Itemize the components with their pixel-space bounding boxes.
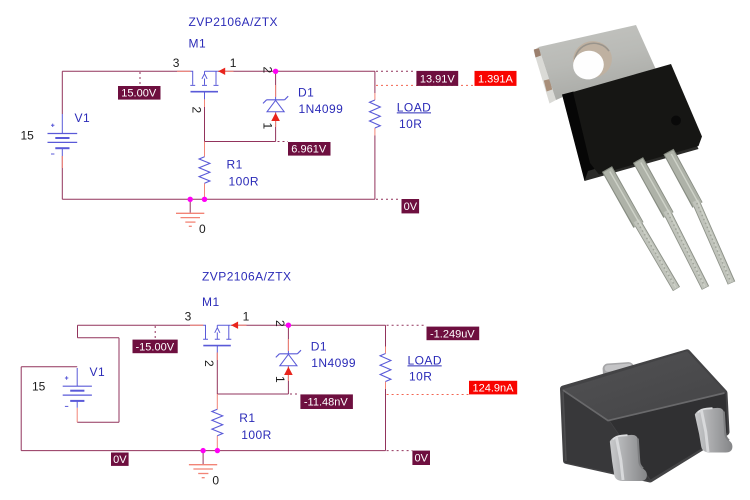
probe dotted to 0V: [376, 198, 401, 200]
svg-text:15.00V: 15.00V: [121, 88, 157, 100]
ground symbol: [176, 199, 204, 226]
wire battery bottom to rail: [61, 156, 63, 199]
battery V1 (reversed wiring): [63, 368, 92, 408]
wire M1 source stem: [204, 99, 206, 141]
svg-text:15: 15: [21, 129, 35, 143]
probe dotted to 124.9nA: [387, 394, 469, 396]
svg-text:M1: M1: [202, 295, 220, 309]
M1 drain current arrow: [218, 68, 225, 75]
svg-text:0V: 0V: [404, 201, 418, 213]
wire top rail left (battery to M1 gate): [62, 70, 190, 72]
wire hook left vertical: [77, 325, 79, 338]
zener diode D1: [263, 96, 288, 112]
node dot ground: [188, 197, 193, 202]
leg 3: [669, 152, 732, 284]
mosfet M1: [203, 325, 231, 352]
svg-text:0: 0: [199, 222, 206, 236]
svg-text:V1: V1: [75, 111, 91, 125]
smd back lead tab: [602, 362, 635, 381]
probe dotted to -15.00V: [154, 326, 156, 340]
svg-text:0V: 0V: [415, 453, 429, 465]
ground symbol: [189, 451, 217, 478]
svg-text:1N4099: 1N4099: [311, 356, 356, 370]
svg-text:100R: 100R: [241, 428, 271, 442]
wire D1 anode lead: [275, 113, 277, 142]
smd front leg right: [695, 408, 733, 453]
node dot R1 bottom: [202, 197, 207, 202]
wire top rail (hook to M1 gate): [78, 324, 204, 326]
svg-text:0: 0: [212, 474, 219, 488]
svg-text:2: 2: [273, 320, 287, 327]
svg-text:-1.249uV: -1.249uV: [430, 328, 475, 340]
wire R1 leads: [204, 142, 206, 200]
smd body silhouette: [564, 353, 727, 479]
smd top edge highlight: [563, 390, 725, 420]
wire hook bottom to battery: [77, 421, 119, 423]
svg-text:1: 1: [243, 310, 250, 324]
body bottom bevel: [585, 139, 699, 181]
wire D1 cathode lead: [275, 71, 277, 97]
probe dotted to 13.91V: [376, 70, 416, 72]
svg-text:1N4099: 1N4099: [299, 102, 344, 116]
smd body right face: [610, 393, 728, 480]
value box -15.00V: [133, 340, 178, 354]
resistor R1: [212, 409, 223, 435]
photo TO-220 package: [534, 25, 732, 289]
svg-text:D1: D1: [298, 86, 314, 100]
svg-text:2: 2: [202, 360, 216, 367]
node dot ground: [200, 448, 205, 453]
D1 current arrow: [284, 367, 293, 375]
wire top rail mid (M1 to D1 node): [231, 324, 288, 326]
node dot R1 bottom: [215, 448, 220, 453]
value box 13.91V: [416, 71, 458, 86]
svg-text:100R: 100R: [229, 174, 260, 188]
smd body top face: [562, 351, 727, 421]
probe dotted to 6.961V: [278, 141, 289, 143]
smd front leg left: [610, 435, 647, 481]
svg-text:1: 1: [260, 123, 274, 130]
photo SMD package: [562, 351, 733, 481]
svg-text:1: 1: [273, 376, 287, 383]
svg-text:ZVP2106A/ZTX: ZVP2106A/ZTX: [189, 15, 278, 29]
value box 6.961V: [288, 142, 331, 156]
svg-text:R1: R1: [227, 158, 243, 172]
leg 1: [607, 169, 677, 289]
svg-text:2: 2: [189, 107, 203, 114]
value box 0V: [402, 199, 420, 213]
wire left outer rail: [20, 367, 22, 451]
resistor LOAD: [370, 100, 381, 128]
svg-text:V1: V1: [90, 365, 106, 379]
svg-text:13.91V: 13.91V: [420, 73, 456, 85]
svg-text:ZVP2106A/ZTX: ZVP2106A/ZTX: [202, 270, 291, 284]
body mold dot: [671, 116, 681, 126]
svg-text:1.391A: 1.391A: [478, 73, 514, 85]
wire top rail right (D1 node to load): [276, 70, 375, 72]
probe dotted to 15.00V: [139, 72, 141, 86]
svg-text:6.961V: 6.961V: [291, 144, 327, 156]
value box -11.48nV: [300, 394, 353, 409]
svg-text:R1: R1: [239, 411, 255, 425]
node dot D1 top: [286, 323, 291, 328]
wire D1 cathode lead: [287, 325, 289, 351]
probe dotted to -1.249uV: [387, 324, 426, 326]
wire hook right vertical: [118, 338, 120, 422]
wire node to D1 anode: [217, 393, 288, 395]
wire hook horizontal: [78, 337, 120, 339]
svg-text:-11.48nV: -11.48nV: [304, 397, 348, 409]
svg-text:3: 3: [185, 310, 192, 324]
probe dotted to 1.391A: [376, 84, 474, 86]
wire bottom rail: [62, 198, 375, 200]
value box -1.249uV: [427, 327, 480, 341]
smd body front face: [563, 391, 651, 481]
probe dotted to 0V right: [387, 450, 413, 452]
wire battery top to left rail: [21, 366, 77, 368]
svg-text:2: 2: [260, 67, 274, 74]
M1 drain current arrow: [231, 322, 238, 329]
body front face: [573, 64, 702, 175]
value box 0V left: [111, 453, 129, 467]
metal tab side face: [534, 47, 557, 104]
svg-text:-15.00V: -15.00V: [136, 341, 175, 353]
probe dotted to -11.48nV: [290, 393, 300, 395]
value box 15.00V: [118, 86, 161, 100]
svg-text:0V: 0V: [113, 454, 127, 466]
label LOAD underlined: [397, 101, 431, 115]
wire D1 anode lead: [287, 367, 289, 395]
svg-text:15: 15: [32, 380, 46, 394]
wire bottom rail: [21, 450, 385, 452]
wire R1 leads: [216, 394, 218, 451]
tab hole: [568, 37, 615, 82]
value box 124.9nA: [469, 381, 517, 395]
wire node to D1 anode: [205, 141, 276, 143]
wire left rail (battery top lead): [61, 71, 63, 114]
body left side face: [562, 92, 597, 182]
value box 0V right: [412, 451, 430, 465]
tab notch marks: [534, 48, 541, 58]
node dot D1 top: [273, 69, 278, 74]
leg 2: [638, 160, 706, 288]
svg-text:M1: M1: [189, 37, 207, 51]
svg-text:1: 1: [230, 56, 237, 70]
wire load branch: [374, 71, 376, 199]
wire top rail mid (M1 to D1 node): [218, 70, 276, 72]
wire battery bottom lead: [76, 408, 78, 422]
svg-text:3: 3: [173, 56, 180, 70]
D1 current arrow: [271, 113, 280, 121]
wire M1 source stem: [216, 353, 218, 395]
svg-text:124.9nA: 124.9nA: [473, 383, 515, 395]
wire top rail right (D1 node to load): [288, 324, 385, 326]
value box 1.391A: [475, 71, 517, 86]
label LOAD underlined: [408, 354, 442, 368]
svg-text:D1: D1: [311, 340, 327, 354]
smd left edge highlight: [563, 392, 566, 462]
mosfet M1: [190, 71, 218, 99]
metal tab: [539, 25, 656, 100]
svg-text:10R: 10R: [409, 370, 432, 384]
svg-text:10R: 10R: [399, 117, 422, 131]
wire load branch: [385, 325, 387, 450]
battery V1: [48, 114, 78, 156]
zener diode D1: [276, 350, 301, 366]
resistor LOAD: [380, 354, 391, 382]
resistor R1: [199, 157, 210, 183]
